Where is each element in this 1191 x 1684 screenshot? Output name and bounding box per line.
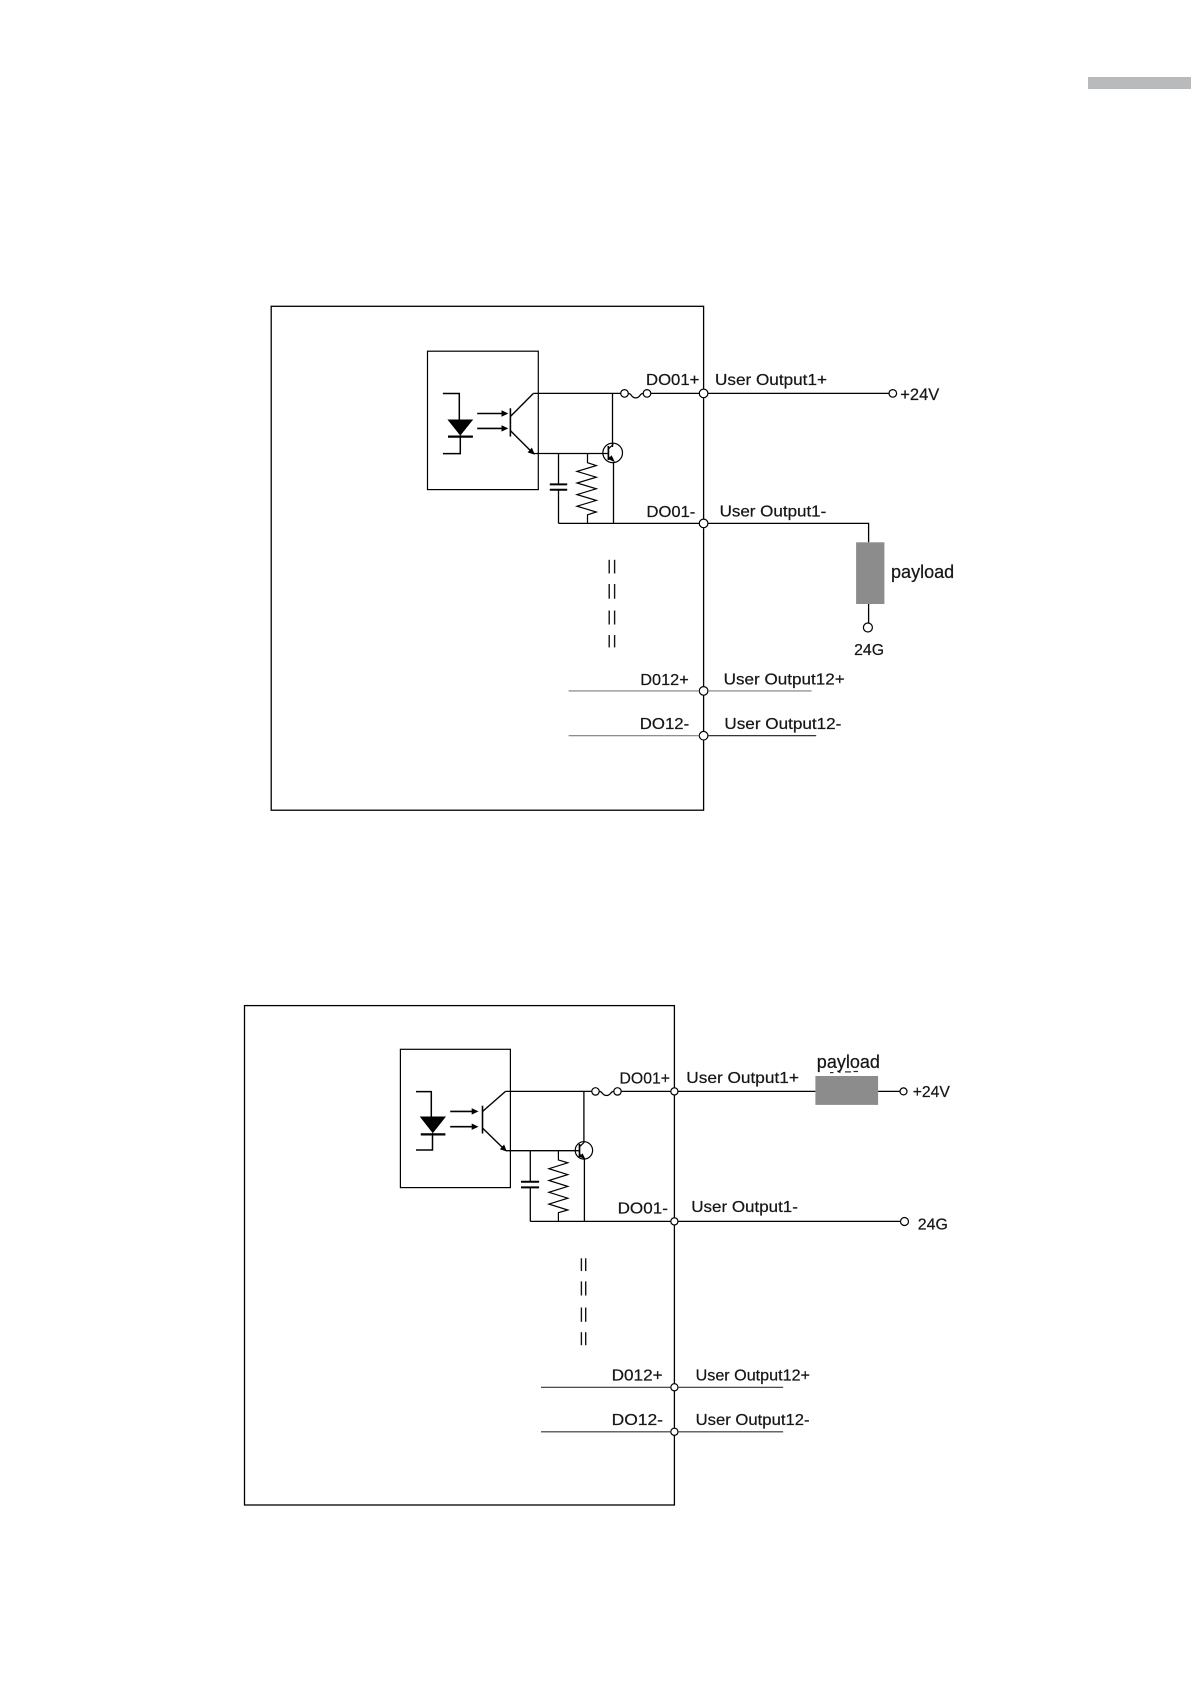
svg-text:DO01+: DO01+	[646, 372, 699, 389]
svg-text:DO01+: DO01+	[620, 1070, 671, 1087]
svg-text:payload: payload	[891, 562, 954, 582]
svg-text:User Output12+: User Output12+	[724, 672, 845, 689]
svg-text:+24V: +24V	[900, 386, 939, 404]
svg-text:User Output1+: User Output1+	[686, 1070, 799, 1087]
svg-text:User Output1+: User Output1+	[715, 372, 827, 389]
svg-text:+24V: +24V	[913, 1084, 951, 1101]
svg-text:payload: payload	[817, 1052, 880, 1072]
svg-text:User Output1-: User Output1-	[720, 504, 827, 521]
svg-text:DO01-: DO01-	[618, 1201, 668, 1218]
svg-text:DO12-: DO12-	[640, 716, 689, 733]
svg-text:24G: 24G	[918, 1217, 948, 1234]
svg-text:D012+: D012+	[612, 1368, 663, 1385]
svg-text:DO01-: DO01-	[647, 504, 696, 521]
svg-text:24G: 24G	[854, 642, 884, 659]
svg-text:User Output12+: User Output12+	[696, 1368, 810, 1385]
svg-text:DO12-: DO12-	[612, 1412, 663, 1429]
svg-text:User Output12-: User Output12-	[696, 1412, 810, 1429]
svg-text:User Output12-: User Output12-	[724, 716, 841, 733]
svg-text:User Output1-: User Output1-	[691, 1199, 798, 1216]
svg-text:D012+: D012+	[640, 672, 688, 689]
